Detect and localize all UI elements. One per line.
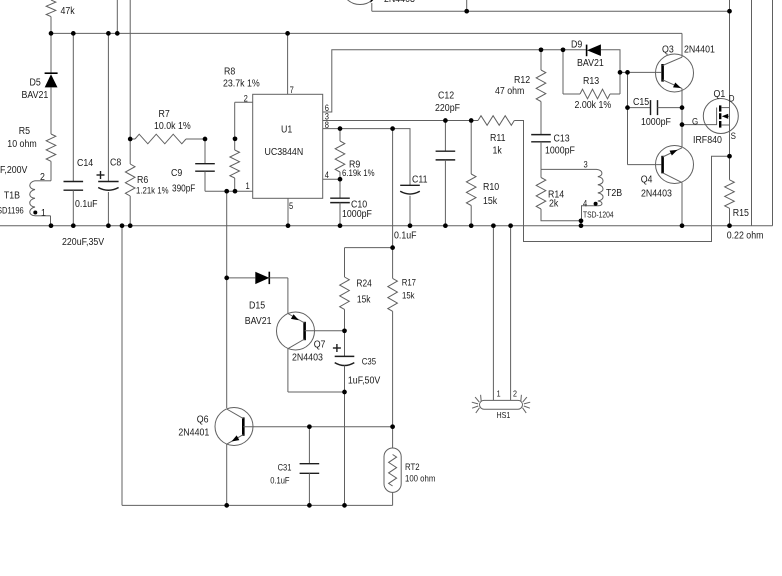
svg-text:2N4403: 2N4403 <box>641 188 672 200</box>
svg-text:4: 4 <box>583 198 588 209</box>
svg-text:2N4403: 2N4403 <box>292 352 323 364</box>
svg-text:10 ohm: 10 ohm <box>7 138 36 150</box>
svg-text:SD1196: SD1196 <box>0 205 24 216</box>
svg-text:C15: C15 <box>633 96 649 108</box>
svg-text:0.1uF: 0.1uF <box>75 198 98 210</box>
svg-text:T1B: T1B <box>4 190 20 202</box>
svg-text:390pF: 390pF <box>172 183 196 194</box>
svg-text:C13: C13 <box>554 133 570 145</box>
svg-text:TSD-1204: TSD-1204 <box>583 210 614 220</box>
svg-text:U1: U1 <box>281 124 292 136</box>
svg-text:T2B: T2B <box>606 187 622 199</box>
svg-text:2: 2 <box>244 93 249 104</box>
svg-text:220uF,35V: 220uF,35V <box>62 236 105 248</box>
svg-text:2N4401: 2N4401 <box>684 44 715 56</box>
svg-text:C12: C12 <box>438 90 454 102</box>
svg-text:0.1uF: 0.1uF <box>394 230 417 242</box>
svg-text:HS1: HS1 <box>497 410 511 420</box>
svg-text:R15: R15 <box>733 207 749 219</box>
svg-text:R8: R8 <box>224 66 235 78</box>
svg-text:5: 5 <box>289 200 294 211</box>
svg-text:6.19k 1%: 6.19k 1% <box>342 167 375 178</box>
svg-text:R24: R24 <box>356 278 371 289</box>
svg-text:15k: 15k <box>357 294 371 305</box>
svg-text:BAV21: BAV21 <box>577 57 604 69</box>
svg-text:C31: C31 <box>278 462 292 473</box>
svg-text:2N4401: 2N4401 <box>178 427 209 439</box>
svg-text:47k: 47k <box>61 6 75 18</box>
svg-text:10.0k 1%: 10.0k 1% <box>154 120 191 132</box>
svg-text:4: 4 <box>325 170 330 181</box>
svg-text:1000pF: 1000pF <box>641 116 671 128</box>
svg-text:1000pF: 1000pF <box>545 145 575 157</box>
svg-text:0.1uF: 0.1uF <box>270 475 289 486</box>
svg-text:UC3844N: UC3844N <box>265 146 304 158</box>
svg-text:R10: R10 <box>483 181 500 193</box>
svg-text:Q4: Q4 <box>641 174 653 186</box>
svg-text:1k: 1k <box>493 145 502 157</box>
svg-text:RT2: RT2 <box>405 461 420 472</box>
svg-text:3: 3 <box>584 159 589 170</box>
svg-text:D5: D5 <box>30 77 41 89</box>
svg-text:C35: C35 <box>362 356 377 367</box>
svg-text:G: G <box>692 116 698 127</box>
svg-text:7: 7 <box>290 84 295 95</box>
svg-text:220pF: 220pF <box>435 102 460 114</box>
svg-text:S: S <box>731 130 736 141</box>
svg-text:15k: 15k <box>483 195 497 207</box>
svg-text:0.22 ohm: 0.22 ohm <box>727 230 764 242</box>
svg-text:R5: R5 <box>19 125 30 137</box>
svg-text:Q6: Q6 <box>197 414 209 426</box>
svg-text:C14: C14 <box>77 157 94 169</box>
svg-text:47 ohm: 47 ohm <box>495 85 524 97</box>
svg-text:R17: R17 <box>402 277 417 288</box>
svg-text:1uF,50V: 1uF,50V <box>348 375 381 387</box>
svg-text:2: 2 <box>40 171 45 183</box>
svg-text:C8: C8 <box>110 157 121 169</box>
svg-text:1000pF: 1000pF <box>342 208 372 220</box>
svg-text:C11: C11 <box>412 174 428 186</box>
svg-text:23.7k 1%: 23.7k 1% <box>223 78 260 90</box>
svg-text:8: 8 <box>325 119 330 130</box>
svg-text:IRF840: IRF840 <box>693 134 722 146</box>
svg-text:1: 1 <box>497 389 501 399</box>
svg-text:2: 2 <box>513 389 517 399</box>
svg-text:Q1: Q1 <box>714 88 726 100</box>
svg-text:2N4403: 2N4403 <box>384 0 415 5</box>
svg-text:R7: R7 <box>159 108 170 120</box>
svg-text:D9: D9 <box>571 39 582 51</box>
svg-text:1.21k 1%: 1.21k 1% <box>136 185 169 196</box>
svg-text:D: D <box>729 93 735 104</box>
svg-text:C9: C9 <box>171 167 182 179</box>
svg-text:2k: 2k <box>549 198 558 210</box>
svg-text:100 ohm: 100 ohm <box>405 473 435 484</box>
svg-text:1: 1 <box>246 180 251 191</box>
svg-text:D15: D15 <box>249 300 265 312</box>
svg-text:BAV21: BAV21 <box>22 89 49 101</box>
svg-text:R11: R11 <box>490 132 506 144</box>
svg-text:2.00k 1%: 2.00k 1% <box>575 99 612 111</box>
svg-text:BAV21: BAV21 <box>245 315 272 327</box>
svg-text:F,200V: F,200V <box>0 164 28 176</box>
svg-text:1: 1 <box>41 207 46 219</box>
svg-text:Q3: Q3 <box>662 44 674 56</box>
svg-text:15k: 15k <box>402 290 415 301</box>
svg-text:R13: R13 <box>583 75 599 87</box>
svg-text:Q7: Q7 <box>314 339 326 351</box>
